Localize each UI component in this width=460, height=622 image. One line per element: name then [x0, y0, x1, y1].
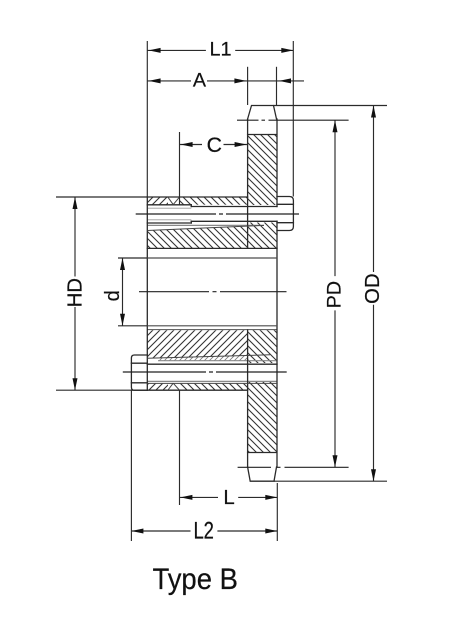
svg-text:A: A: [193, 69, 207, 91]
svg-text:d: d: [102, 290, 124, 301]
svg-text:L: L: [223, 487, 234, 509]
svg-text:L1: L1: [209, 38, 231, 60]
svg-text:Type B: Type B: [152, 563, 238, 596]
svg-text:L2: L2: [193, 519, 214, 545]
svg-text:PD: PD: [324, 281, 346, 308]
svg-text:OD: OD: [362, 273, 384, 303]
svg-text:HD: HD: [65, 278, 87, 307]
svg-text:C: C: [207, 134, 222, 157]
